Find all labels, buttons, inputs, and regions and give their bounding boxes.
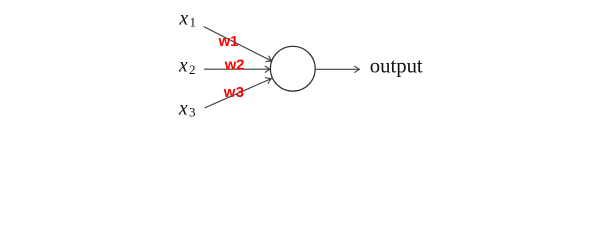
svg-text:3: 3 [189, 105, 196, 120]
node x3 label [178, 98, 196, 119]
svg-text:w3: w3 [223, 85, 245, 101]
svg-text:x: x [178, 56, 188, 77]
neuron body circle [270, 46, 315, 91]
svg-text:output: output [370, 55, 423, 77]
svg-text:x: x [178, 98, 188, 119]
svg-text:w2: w2 [224, 57, 245, 73]
svg-text:1: 1 [190, 15, 197, 30]
wire x2 to neuron [205, 66, 271, 72]
wire x1 to neuron [204, 27, 273, 64]
node x2 label [178, 56, 196, 77]
svg-text:2: 2 [189, 62, 196, 77]
svg-text:w1: w1 [218, 34, 239, 50]
svg-text:x: x [179, 8, 189, 29]
wire x3 to neuron [205, 76, 273, 108]
output wire arrow [316, 66, 359, 72]
node x1 label [179, 8, 197, 29]
